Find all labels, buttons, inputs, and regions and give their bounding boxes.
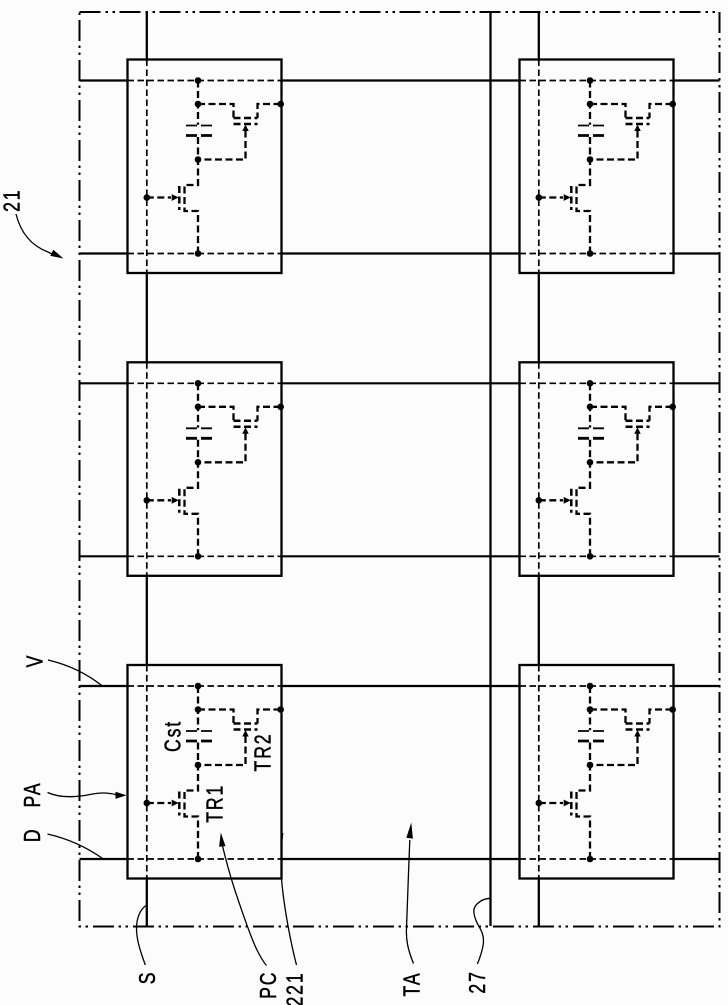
svg-text:PC: PC xyxy=(256,971,282,999)
svg-text:TR2: TR2 xyxy=(250,733,276,772)
svg-text:PA: PA xyxy=(19,782,45,808)
svg-text:V: V xyxy=(22,654,48,668)
svg-text:Cst: Cst xyxy=(160,720,186,752)
svg-text:27: 27 xyxy=(464,970,490,993)
svg-text:S: S xyxy=(134,971,160,985)
svg-text:221: 221 xyxy=(282,971,308,1005)
svg-text:TR1: TR1 xyxy=(202,784,228,823)
svg-text:D: D xyxy=(19,827,45,842)
svg-text:21: 21 xyxy=(0,189,25,212)
svg-text:TA: TA xyxy=(399,972,425,997)
